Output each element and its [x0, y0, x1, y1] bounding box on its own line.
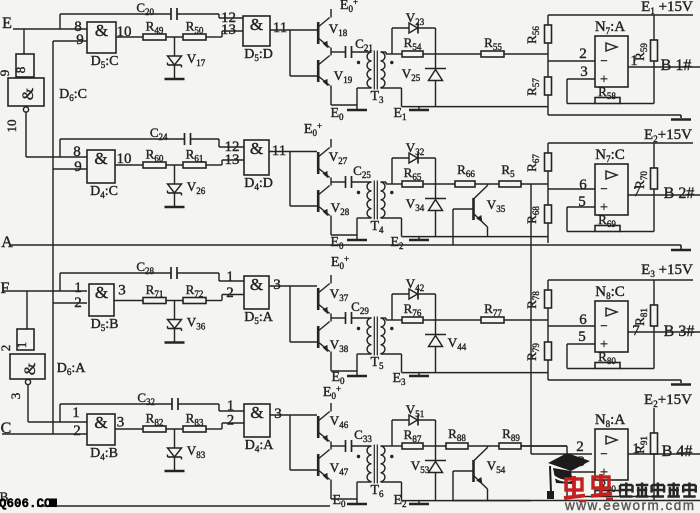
svg-text:R66: R66 — [457, 162, 475, 179]
svg-text:3: 3 — [117, 415, 125, 431]
svg-text:C33: C33 — [354, 427, 372, 444]
svg-text:2: 2 — [73, 423, 81, 439]
svg-text:−: − — [600, 446, 607, 461]
svg-text:E2+15V: E2+15V — [644, 392, 692, 409]
svg-text:B 4#: B 4# — [662, 443, 693, 460]
svg-text:T4: T4 — [370, 219, 384, 235]
svg-text:R55: R55 — [484, 35, 502, 52]
svg-text:V34: V34 — [406, 196, 425, 213]
svg-text:E2+15V: E2+15V — [644, 127, 692, 144]
svg-text:3: 3 — [118, 283, 126, 299]
svg-text:R81: R81 — [632, 308, 649, 326]
svg-text:6: 6 — [579, 177, 587, 193]
svg-text:V83: V83 — [187, 443, 206, 460]
svg-text:&: & — [250, 139, 263, 158]
svg-text:R68: R68 — [524, 206, 541, 224]
svg-text:D5:B: D5:B — [91, 317, 119, 333]
svg-text:E2: E2 — [390, 235, 403, 251]
svg-text:9: 9 — [76, 32, 84, 48]
svg-text:R5: R5 — [501, 162, 515, 179]
svg-text:C21: C21 — [355, 36, 373, 53]
svg-text:E1 +15V: E1 +15V — [641, 0, 693, 16]
svg-text:R76: R76 — [404, 301, 422, 318]
svg-text:R78: R78 — [524, 291, 541, 309]
svg-text:V46: V46 — [330, 413, 349, 430]
svg-text:E0: E0 — [330, 235, 344, 251]
svg-text:E0: E0 — [332, 493, 346, 509]
svg-text:Q606.CO: Q606.CO — [0, 497, 52, 511]
svg-text:R50: R50 — [186, 19, 204, 36]
svg-text:V38: V38 — [330, 337, 349, 354]
svg-text:www.eeworm.cdm: www.eeworm.cdm — [564, 498, 696, 513]
svg-text:1: 1 — [72, 405, 80, 421]
svg-text:−: − — [600, 181, 607, 196]
svg-text:R89: R89 — [502, 426, 520, 443]
svg-text:E1: E1 — [393, 106, 406, 122]
svg-text:C32: C32 — [137, 390, 155, 407]
svg-text:B 1#: B 1# — [661, 57, 692, 74]
svg-text:V17: V17 — [187, 51, 206, 68]
svg-text:V28: V28 — [331, 200, 350, 217]
svg-text:3: 3 — [8, 393, 23, 400]
svg-text:V35: V35 — [487, 197, 506, 214]
svg-text:3: 3 — [580, 64, 588, 80]
svg-text:V23: V23 — [406, 10, 425, 27]
svg-text:1: 1 — [14, 342, 29, 349]
svg-text:R67: R67 — [524, 154, 541, 172]
svg-text:D4:A: D4:A — [245, 438, 275, 454]
svg-text:8: 8 — [13, 67, 28, 74]
svg-text:E0: E0 — [330, 106, 344, 122]
svg-text:V32: V32 — [406, 140, 424, 157]
svg-text:D6:A: D6:A — [57, 361, 87, 377]
svg-text:V37: V37 — [330, 286, 349, 303]
svg-text:D4:B: D4:B — [90, 446, 118, 462]
svg-text:C20: C20 — [136, 0, 154, 17]
svg-text:&: & — [95, 283, 108, 302]
svg-text:V42: V42 — [406, 276, 424, 293]
svg-text:N8:A: N8:A — [595, 412, 626, 429]
svg-text:1: 1 — [226, 269, 234, 285]
svg-text:V26: V26 — [187, 179, 206, 196]
svg-text:D5:C: D5:C — [91, 54, 119, 70]
svg-text:D6:C: D6:C — [59, 87, 87, 103]
svg-text:C25: C25 — [353, 163, 371, 180]
svg-text:R60: R60 — [146, 147, 164, 164]
svg-text:T3: T3 — [370, 89, 384, 105]
svg-text:D4:D: D4:D — [244, 176, 273, 192]
svg-text:2: 2 — [74, 295, 82, 311]
svg-text:V25: V25 — [402, 66, 421, 83]
svg-text:11: 11 — [273, 20, 287, 36]
svg-text:&: & — [94, 413, 107, 432]
svg-text:C24: C24 — [150, 125, 168, 142]
svg-text:V36: V36 — [187, 315, 206, 332]
svg-text:R54: R54 — [404, 35, 422, 52]
svg-text:&: & — [22, 362, 39, 375]
svg-text:E3 +15V: E3 +15V — [641, 262, 693, 279]
svg-text:V44: V44 — [448, 335, 467, 352]
svg-text:F: F — [1, 280, 10, 297]
svg-text:T6: T6 — [370, 483, 384, 499]
svg-text:R61: R61 — [186, 147, 204, 164]
svg-text:E2: E2 — [393, 493, 406, 509]
svg-text:2: 2 — [576, 439, 584, 455]
svg-text:2: 2 — [579, 46, 587, 62]
svg-text:&: & — [95, 21, 108, 40]
svg-text:&: & — [94, 149, 107, 168]
svg-text:R59: R59 — [632, 43, 649, 61]
svg-text:V47: V47 — [330, 460, 349, 477]
svg-text:&: & — [250, 275, 263, 294]
svg-text:E0+: E0+ — [340, 0, 358, 14]
svg-text:N7:A: N7:A — [595, 19, 626, 36]
svg-text:V54: V54 — [487, 458, 506, 475]
svg-text:A: A — [1, 234, 13, 251]
svg-text:R79: R79 — [524, 343, 541, 361]
svg-text:&: & — [250, 15, 263, 34]
svg-text:R71: R71 — [146, 282, 164, 299]
svg-text:13: 13 — [221, 22, 236, 38]
svg-text:C28: C28 — [136, 259, 154, 276]
svg-text:T5: T5 — [370, 355, 384, 371]
svg-text:−: − — [600, 318, 607, 333]
svg-text:R88: R88 — [448, 426, 466, 443]
svg-text:C29: C29 — [351, 299, 369, 316]
svg-text:E3: E3 — [392, 371, 406, 387]
svg-text:5: 5 — [578, 329, 586, 345]
svg-text:R87: R87 — [404, 427, 422, 444]
svg-text:&: & — [20, 87, 37, 100]
svg-text:3: 3 — [273, 277, 281, 293]
svg-text:D5:A: D5:A — [244, 310, 274, 326]
svg-text:8: 8 — [73, 144, 81, 160]
svg-text:D5:D: D5:D — [244, 47, 273, 63]
svg-text:R83: R83 — [186, 411, 204, 428]
svg-text:R77: R77 — [484, 301, 502, 318]
svg-text:3: 3 — [274, 406, 282, 422]
svg-text:2: 2 — [0, 345, 13, 352]
svg-text:V19: V19 — [334, 68, 353, 85]
svg-text:2: 2 — [227, 413, 235, 429]
svg-text:R56: R56 — [524, 26, 541, 44]
svg-text:9: 9 — [0, 70, 12, 77]
svg-text:1: 1 — [74, 280, 82, 296]
svg-text:−: − — [600, 53, 607, 68]
svg-text:2: 2 — [226, 285, 234, 301]
svg-text:10: 10 — [4, 120, 19, 133]
svg-text:E0+: E0+ — [304, 121, 322, 138]
svg-text:V51: V51 — [406, 402, 424, 419]
svg-text:N8:C: N8:C — [595, 284, 625, 301]
svg-text:E0+: E0+ — [331, 254, 349, 271]
svg-text:E0+: E0+ — [323, 384, 341, 401]
svg-text:&: & — [250, 403, 263, 422]
svg-text:13: 13 — [225, 152, 240, 168]
svg-text:E: E — [2, 15, 12, 32]
svg-text:R72: R72 — [186, 282, 204, 299]
svg-text:N7:C: N7:C — [595, 147, 625, 164]
svg-text:R49: R49 — [146, 19, 164, 36]
svg-text:V18: V18 — [329, 21, 348, 38]
svg-text:R82: R82 — [146, 411, 164, 428]
svg-text:V27: V27 — [329, 149, 348, 166]
svg-text:R70: R70 — [632, 171, 649, 189]
svg-text:R57: R57 — [524, 78, 541, 96]
svg-text:D4:C: D4:C — [90, 184, 118, 200]
svg-text:B 2#: B 2# — [664, 185, 695, 202]
svg-text:9: 9 — [74, 159, 82, 175]
svg-text:R65: R65 — [404, 165, 422, 182]
